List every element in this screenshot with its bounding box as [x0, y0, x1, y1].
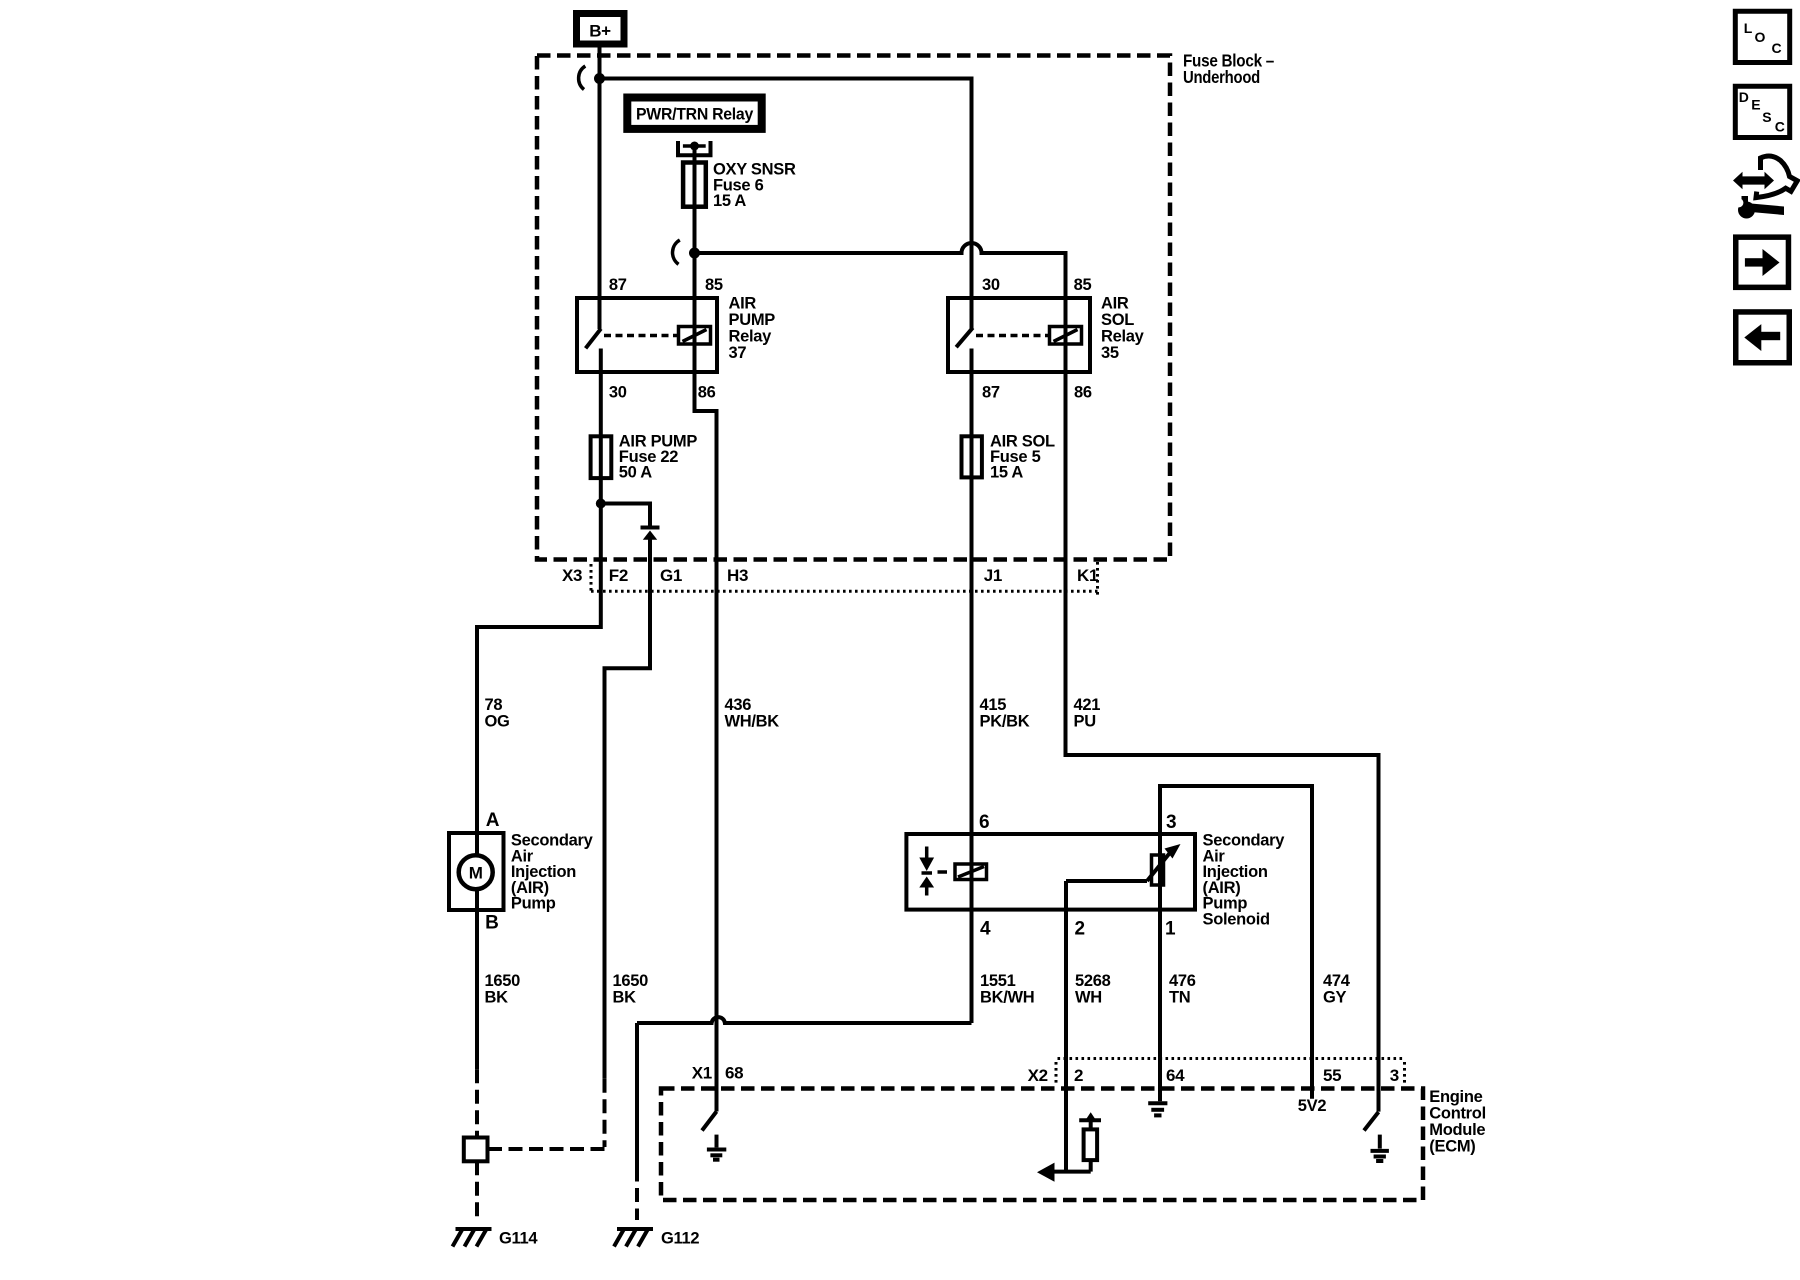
svg-text:X2: X2	[1028, 1066, 1048, 1085]
svg-text:AIR: AIR	[1101, 295, 1129, 313]
svg-text:C: C	[1772, 40, 1782, 56]
svg-text:WH/BK: WH/BK	[725, 713, 780, 731]
svg-text:87: 87	[609, 276, 627, 294]
svg-text:35: 35	[1101, 344, 1119, 362]
svg-text:TN: TN	[1169, 989, 1190, 1007]
svg-text:436: 436	[725, 696, 752, 714]
svg-text:L: L	[1744, 20, 1753, 36]
svg-text:X1: X1	[692, 1064, 712, 1083]
svg-text:X3: X3	[562, 566, 582, 585]
svg-text:Underhood: Underhood	[1183, 67, 1260, 87]
svg-text:F2: F2	[609, 566, 628, 585]
svg-text:C: C	[1775, 119, 1785, 135]
svg-text:50 A: 50 A	[619, 464, 652, 482]
svg-text:476: 476	[1169, 972, 1196, 990]
svg-text:64: 64	[1166, 1066, 1185, 1085]
svg-text:PUMP: PUMP	[729, 311, 776, 329]
svg-text:B+: B+	[589, 22, 611, 41]
svg-text:K1: K1	[1077, 566, 1098, 585]
svg-text:PK/BK: PK/BK	[980, 713, 1030, 731]
svg-text:BK/WH: BK/WH	[980, 989, 1034, 1007]
svg-text:Module: Module	[1429, 1121, 1485, 1139]
svg-text:5V2: 5V2	[1298, 1097, 1327, 1115]
svg-text:OG: OG	[485, 713, 510, 731]
svg-text:(ECM): (ECM)	[1429, 1138, 1475, 1156]
svg-text:M: M	[469, 864, 483, 883]
svg-text:1551: 1551	[980, 972, 1016, 990]
svg-text:68: 68	[725, 1064, 743, 1083]
svg-text:Engine: Engine	[1429, 1088, 1482, 1106]
svg-text:421: 421	[1074, 696, 1101, 714]
svg-text:J1: J1	[984, 566, 1002, 585]
svg-text:A: A	[486, 810, 500, 831]
svg-text:AIR: AIR	[729, 295, 757, 313]
svg-text:BK: BK	[485, 989, 509, 1007]
svg-text:O: O	[1755, 29, 1766, 45]
svg-text:2: 2	[1074, 1066, 1083, 1085]
svg-text:87: 87	[982, 384, 1000, 402]
svg-text:WH: WH	[1075, 989, 1102, 1007]
svg-text:1650: 1650	[613, 972, 649, 990]
svg-text:85: 85	[1074, 276, 1092, 294]
svg-text:BK: BK	[613, 989, 637, 1007]
svg-text:415: 415	[980, 696, 1007, 714]
svg-text:474: 474	[1323, 972, 1351, 990]
svg-text:85: 85	[705, 276, 723, 294]
svg-text:6: 6	[979, 812, 989, 833]
svg-text:GY: GY	[1323, 989, 1347, 1007]
svg-text:Relay: Relay	[1101, 328, 1145, 346]
svg-text:Pump: Pump	[511, 895, 556, 913]
svg-text:4: 4	[980, 919, 991, 940]
svg-text:78: 78	[485, 696, 503, 714]
svg-text:37: 37	[729, 344, 747, 362]
svg-text:Relay: Relay	[729, 328, 773, 346]
svg-text:PU: PU	[1074, 713, 1096, 731]
svg-text:3: 3	[1390, 1066, 1399, 1085]
svg-text:H3: H3	[727, 566, 748, 585]
svg-text:86: 86	[1074, 384, 1092, 402]
svg-text:15 A: 15 A	[990, 464, 1023, 482]
svg-text:Control: Control	[1429, 1105, 1486, 1123]
svg-text:D: D	[1739, 89, 1749, 105]
svg-text:G1: G1	[660, 566, 682, 585]
svg-text:E: E	[1751, 97, 1760, 113]
svg-text:30: 30	[609, 384, 627, 402]
svg-text:2: 2	[1075, 919, 1085, 940]
svg-text:G112: G112	[661, 1230, 699, 1248]
svg-text:G114: G114	[499, 1230, 538, 1248]
svg-text:15 A: 15 A	[713, 192, 746, 210]
svg-text:SOL: SOL	[1101, 311, 1134, 329]
svg-text:55: 55	[1323, 1066, 1341, 1085]
svg-text:1: 1	[1165, 919, 1176, 940]
svg-text:PWR/TRN Relay: PWR/TRN Relay	[636, 105, 754, 124]
svg-text:S: S	[1762, 109, 1771, 125]
svg-text:30: 30	[982, 276, 1000, 294]
svg-text:5268: 5268	[1075, 972, 1111, 990]
svg-text:B: B	[485, 913, 498, 934]
svg-text:3: 3	[1166, 812, 1176, 833]
svg-text:86: 86	[698, 384, 716, 402]
svg-text:1650: 1650	[485, 972, 521, 990]
svg-text:Solenoid: Solenoid	[1203, 911, 1270, 929]
